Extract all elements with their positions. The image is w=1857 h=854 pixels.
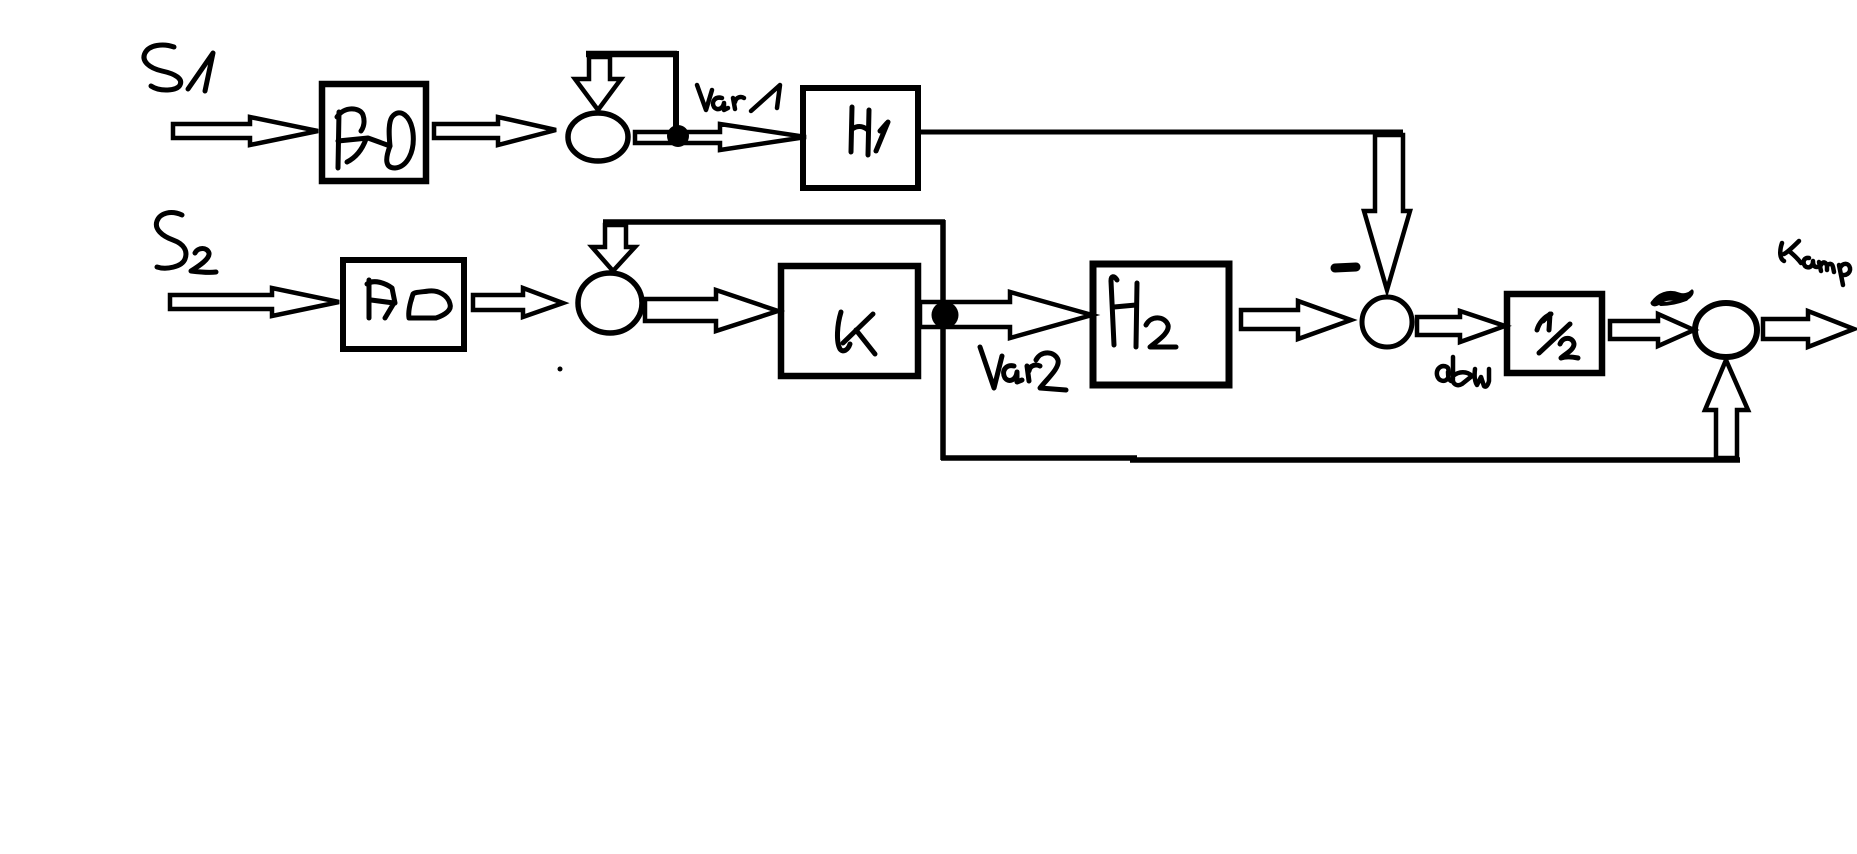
K scribble: [837, 312, 875, 354]
node Var2 (junction dot): [932, 302, 959, 329]
label abw: [1437, 357, 1489, 387]
arrow output: [1763, 311, 1854, 347]
block H1: [803, 88, 918, 188]
label Var 1: [697, 85, 780, 111]
arrow sum2 to K: [645, 290, 778, 331]
feedback wire bottom (Var2 to output junction): [941, 458, 1740, 460]
arrow input S1: [173, 117, 318, 145]
label S1: [144, 45, 213, 91]
summing junction 3: [1362, 297, 1412, 347]
arrow A/D to sum1: [434, 117, 556, 145]
output junction circle: [1695, 303, 1757, 357]
A/D scribble (row 1): [337, 109, 413, 168]
A/D scribble (row 2): [367, 280, 450, 318]
feedback wire vertical (row 1): [673, 51, 679, 132]
feedback arrow into sum2 (hollow down arrow): [592, 225, 635, 271]
node Var1 (junction dot): [667, 125, 689, 147]
arrow H2 to sum3: [1241, 301, 1351, 339]
label Komp: [1780, 241, 1850, 285]
wire K to H2 with arrow: [920, 292, 1092, 338]
feedback wire vertical (row 2, from node Var2 line): [940, 220, 946, 460]
summing junction 1: [568, 113, 628, 161]
label S2: [156, 213, 216, 273]
H1 scribble: [851, 107, 888, 155]
arrow input S2: [170, 288, 339, 316]
scribble mark above arrow: [1652, 291, 1692, 305]
arrow half to output junction: [1610, 314, 1694, 346]
feedback wire top (row 2): [603, 219, 945, 225]
arrow A/D2 to sum2: [473, 288, 563, 317]
block 1/2: [1507, 294, 1602, 373]
stray ink dot: [558, 367, 563, 372]
block A/D (row 2): [343, 260, 464, 349]
wire sum1 to H1 with arrow: [635, 124, 806, 150]
feedback wire top (row 1): [586, 51, 677, 58]
1/2 scribble: [1537, 314, 1578, 358]
block A/D (row 1): [322, 84, 426, 181]
feedback arrow up into output junction: [1705, 360, 1748, 458]
H2 scribble: [1111, 277, 1176, 347]
arrow sum3 to half block: [1417, 311, 1505, 342]
label Var 2: [980, 347, 1066, 390]
feedback arrow from H1 into sum3 (hollow down arrow): [1364, 135, 1410, 290]
block K: [781, 266, 918, 376]
feedback arrow into sum1 (hollow down arrow): [575, 57, 621, 110]
wire H1 to sum3 (long horizontal): [918, 130, 1403, 135]
summing junction 2: [578, 273, 642, 333]
minus sign at sum3: [1335, 267, 1356, 268]
block H2: [1093, 264, 1229, 385]
